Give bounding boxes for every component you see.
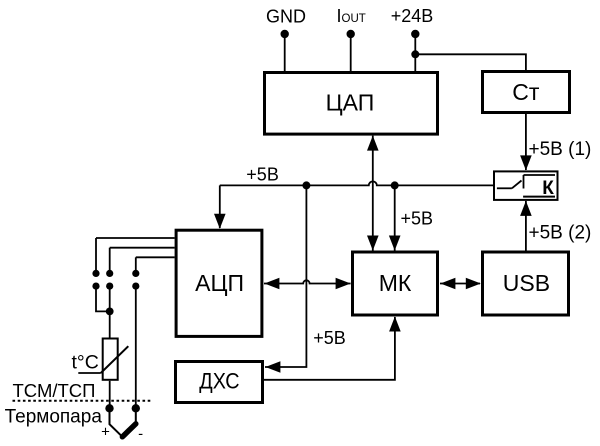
svg-text:t°C: t°C [72, 352, 99, 374]
svg-text:-: - [138, 425, 143, 442]
svg-text:МК: МК [379, 270, 412, 296]
svg-text:+5В: +5В [401, 209, 434, 229]
svg-text:ЦАП: ЦАП [326, 89, 375, 115]
svg-text:Ст: Ст [512, 79, 540, 105]
svg-text:+5В (2): +5В (2) [529, 223, 592, 244]
svg-text:+: + [101, 424, 110, 441]
svg-text:+5В (1): +5В (1) [529, 139, 592, 160]
svg-text:ТСМ/ТСП: ТСМ/ТСП [13, 380, 96, 401]
svg-text:+5В: +5В [246, 164, 279, 184]
svg-text:Термопара: Термопара [5, 407, 103, 428]
svg-text:USB: USB [503, 270, 550, 296]
svg-text:GND: GND [266, 7, 306, 27]
svg-text:К: К [542, 178, 554, 199]
svg-text:АЦП: АЦП [195, 270, 244, 296]
svg-text:+24В: +24В [391, 6, 434, 26]
svg-text:+5В: +5В [313, 328, 346, 348]
svg-text:ДХС: ДХС [199, 370, 239, 394]
